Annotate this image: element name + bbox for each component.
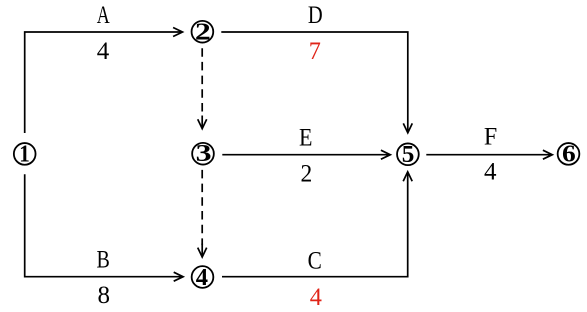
label E	[299, 124, 312, 152]
node 6 digit	[562, 140, 576, 167]
node 6 circle	[558, 143, 580, 165]
dashed dummy arrow from node 3 to node 4	[198, 170, 207, 257]
svg-text:B: B	[97, 246, 110, 274]
svg-text:4: 4	[97, 38, 110, 65]
edge A arrow from node 1 to node 2	[25, 28, 183, 134]
label F	[484, 123, 497, 151]
svg-text:4: 4	[484, 158, 497, 185]
node 5 digit	[402, 141, 415, 168]
label D	[308, 1, 323, 28]
label 4 duration of F	[484, 158, 497, 185]
svg-text:E: E	[299, 124, 312, 152]
svg-text:C: C	[308, 247, 322, 275]
node 4 circle	[192, 266, 214, 288]
label 4 duration of C (red)	[310, 284, 322, 311]
edge F arrow from node 5 to node 6	[426, 150, 552, 159]
svg-text:7: 7	[309, 38, 321, 65]
node 4 digit	[196, 264, 208, 291]
node 3 digit	[196, 141, 212, 168]
svg-text:F: F	[484, 123, 497, 151]
label 8 duration of B	[97, 282, 110, 309]
svg-text:4: 4	[196, 264, 208, 291]
node 3 circle	[192, 143, 214, 165]
edge D arrow from node 2 to node 5	[221, 32, 412, 133]
svg-text:4: 4	[310, 284, 322, 311]
edge B arrow from node 1 to node 4	[25, 174, 183, 281]
dashed dummy arrow from node 2 to node 3	[198, 48, 207, 128]
node 2 digit	[195, 19, 211, 46]
node 1 digit	[19, 140, 30, 167]
node 5 circle	[397, 143, 419, 165]
label B	[97, 246, 110, 274]
label 4 duration of A	[97, 38, 110, 65]
node 1 circle	[14, 143, 36, 165]
svg-text:A: A	[97, 1, 110, 29]
label 2 duration of E	[301, 160, 313, 188]
svg-text:2: 2	[195, 19, 211, 46]
svg-text:1: 1	[19, 140, 30, 167]
svg-text:D: D	[308, 1, 323, 28]
svg-text:8: 8	[97, 282, 110, 309]
svg-text:2: 2	[301, 160, 313, 188]
label A	[97, 1, 110, 29]
svg-text:3: 3	[196, 141, 212, 168]
label C	[308, 247, 322, 275]
svg-text:5: 5	[402, 141, 415, 168]
edge E arrow from node 3 to node 5	[222, 150, 390, 159]
svg-text:6: 6	[562, 140, 576, 167]
edge C arrow from node 4 to node 5	[222, 172, 412, 277]
label 7 duration of D (red)	[309, 38, 321, 65]
node 2 circle	[192, 21, 214, 43]
